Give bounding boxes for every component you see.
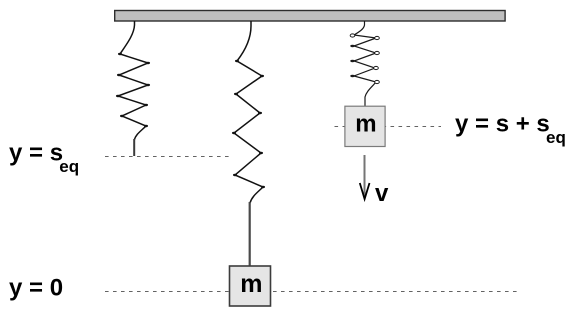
mass m at y=0 (box)	[230, 266, 271, 306]
svg-text:y = s + s: y = s + s	[455, 111, 550, 138]
svg-text:eq: eq	[59, 157, 79, 176]
spring 1 (left, unstretched)	[116, 21, 150, 140]
spring 3 (right, with mass at equilibrium)	[350, 21, 379, 107]
label y = 0	[9, 275, 63, 302]
label y = s_eq	[9, 140, 79, 177]
dashed reference line y = s_eq	[105, 156, 230, 158]
label y = s + s_eq	[455, 111, 566, 148]
spring 1 end wire at equilibrium line	[133, 139, 135, 156]
mass m at y = s + s_eq label	[355, 111, 376, 138]
wire from spring 2 to mass	[249, 202, 251, 267]
spring 2 (middle, stretched)	[232, 21, 265, 203]
ceiling bar	[115, 11, 505, 22]
mass m at y=0 label	[240, 270, 262, 298]
svg-text:y = s: y = s	[9, 140, 63, 167]
svg-text:v: v	[375, 180, 389, 207]
label v	[375, 180, 389, 207]
mass m at y = s + s_eq (box)	[345, 106, 385, 146]
svg-text:m: m	[355, 111, 376, 138]
velocity arrow v (open head)	[360, 183, 370, 199]
velocity arrow v (shaft)	[364, 155, 366, 197]
svg-text:m: m	[240, 270, 262, 298]
dashed reference line y = 0	[105, 291, 517, 293]
dashed reference line y = s + s_eq	[335, 126, 442, 128]
svg-text:eq: eq	[546, 128, 566, 147]
svg-text:y = 0: y = 0	[9, 275, 63, 302]
